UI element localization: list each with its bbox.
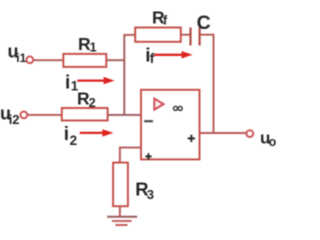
wire down to R3: [119, 147, 121, 163]
wire R2 to op-amp inverting input: [108, 114, 142, 116]
wire junction to Rf: [123, 34, 135, 36]
label R3: [135, 178, 154, 202]
label u_o: [260, 129, 277, 150]
svg-text:1: 1: [90, 40, 97, 54]
wire R1 to junction: [106, 59, 124, 61]
label Rf: [152, 8, 168, 28]
wire capacitor to corner: [201, 34, 214, 36]
label if: [145, 46, 155, 67]
op-amp plus sign (non-inverting input): [145, 153, 151, 159]
op-amp triangle symbol: [154, 99, 163, 110]
op-amp plus sign (output side): [188, 135, 195, 142]
wire non-inverting input: [120, 147, 142, 149]
wire ui2 to R2: [27, 114, 62, 116]
node uo terminal: [246, 130, 253, 137]
label u_i1: [8, 42, 27, 66]
svg-text:i: i: [64, 124, 69, 145]
ground: [107, 217, 137, 225]
label i2: [64, 124, 77, 148]
resistor R1: [63, 54, 106, 67]
label R1: [78, 34, 97, 54]
wire Rf to capacitor: [181, 34, 190, 36]
capacitor C plate 2: [199, 28, 201, 46]
svg-text:i2: i2: [9, 112, 20, 127]
label i1: [65, 73, 79, 94]
resistor Rf: [135, 28, 181, 42]
wire ui1 to R1: [33, 59, 63, 61]
op-amp U1 box: [141, 90, 200, 160]
label R2: [77, 89, 96, 110]
resistor R3: [113, 163, 128, 207]
label u_i2: [0, 104, 20, 128]
op-amp minus sign: [144, 120, 153, 122]
svg-text:3: 3: [147, 187, 154, 202]
node ui1 terminal: [26, 56, 33, 63]
wire feedback vertical down: [213, 34, 215, 133]
wire op-amp output: [200, 132, 247, 134]
node ui2 terminal: [20, 112, 27, 119]
wire R3 to ground: [119, 206, 121, 217]
svg-text:2: 2: [89, 96, 96, 110]
svg-text:i1: i1: [16, 51, 26, 65]
resistor R2: [62, 108, 108, 121]
current arrow i1: [77, 77, 114, 84]
wire junction vertical: [123, 35, 125, 115]
capacitor C plate 1: [189, 28, 191, 46]
op-amp infinity symbol: [174, 106, 183, 110]
current arrow if: [154, 51, 193, 58]
svg-text:2: 2: [70, 133, 78, 148]
current arrow i2: [80, 129, 114, 136]
svg-text:o: o: [269, 135, 277, 149]
svg-text:i: i: [65, 73, 70, 94]
svg-text:C: C: [197, 12, 211, 34]
svg-text:f: f: [150, 51, 155, 66]
